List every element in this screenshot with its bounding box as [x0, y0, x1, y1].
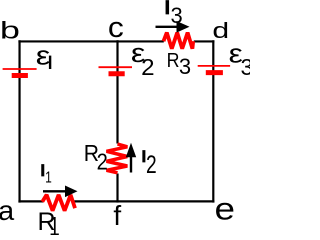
current arrow I1 head [65, 186, 78, 198]
svg-text:f: f [113, 200, 121, 231]
svg-text:2: 2 [146, 150, 157, 178]
svg-text:3: 3 [241, 54, 251, 80]
svg-text:2: 2 [141, 55, 154, 80]
current arrow I1 shaft [43, 190, 66, 192]
wire middle bottom of R2-f [116, 174, 118, 203]
svg-text:e: e [215, 192, 235, 227]
svg-text:a: a [0, 195, 14, 227]
svg-text:3: 3 [179, 54, 191, 79]
svg-text:c: c [108, 11, 124, 43]
wire left b-a [18, 40, 20, 202]
svg-text:ε: ε [36, 42, 50, 71]
battery E1 short thick plate [12, 73, 28, 78]
svg-text:3: 3 [171, 3, 183, 28]
wire top R3-d [194, 40, 215, 42]
svg-text:I: I [41, 162, 46, 180]
wire top c-R3 [118, 40, 164, 42]
svg-text:1: 1 [49, 211, 60, 235]
current arrow I2 shaft [130, 156, 132, 173]
svg-text:d: d [212, 18, 229, 43]
current arrow I2 head [126, 143, 136, 157]
EMF label E1 subscript 1 [49, 56, 51, 69]
wire bottom R1-f-e [75, 200, 215, 202]
svg-text:I: I [165, 0, 170, 19]
wire bottom a-R1 [18, 200, 43, 202]
battery E3 long plate [198, 65, 230, 67]
battery E1 long plate [3, 68, 37, 70]
resistor R3 zigzag [164, 33, 194, 49]
battery E3 short thick plate [206, 70, 223, 75]
resistor R2 zigzag [107, 144, 128, 173]
current arrow I3 head [177, 21, 190, 33]
current arrow I3 shaft [156, 26, 179, 28]
battery E2 long plate [99, 66, 133, 68]
svg-text:b: b [0, 16, 20, 44]
resistor R1 zigzag [42, 195, 75, 211]
svg-text:1: 1 [45, 168, 52, 186]
battery E2 short thick plate [109, 71, 125, 76]
wire right d-e [212, 40, 214, 202]
svg-text:R: R [167, 50, 180, 72]
wire middle c-top of R2 [116, 40, 118, 143]
wire top b-c [18, 40, 118, 42]
svg-text:2: 2 [97, 148, 108, 175]
